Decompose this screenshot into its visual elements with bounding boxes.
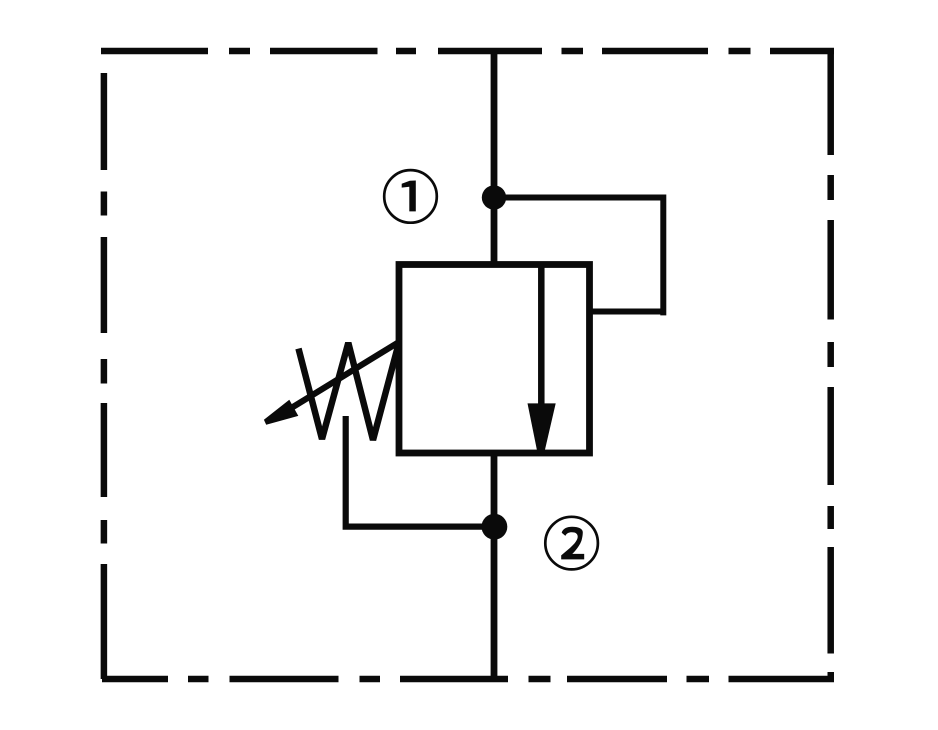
adjustment arrowhead	[264, 400, 298, 425]
node 2 junction dot	[482, 514, 508, 540]
spring (zigzag)	[299, 343, 398, 440]
port label circle 1	[384, 170, 437, 223]
wire: pilot line from node 1 to valve right side	[494, 195, 666, 316]
wire: main vertical line port 1 side (top border to valve body)	[491, 48, 498, 265]
enclosure dash-dot border left	[101, 73, 108, 679]
wire: spring drain line to node 2	[343, 416, 494, 527]
enclosure dash-dot border bottom	[102, 676, 834, 683]
port label digit 2	[561, 527, 584, 560]
adjustment arrow shaft	[288, 342, 399, 410]
enclosure dash-dot border right	[827, 48, 834, 654]
node 1 junction dot	[482, 185, 506, 209]
valve body envelope	[399, 265, 590, 454]
port label circle 2	[545, 517, 598, 570]
enclosure dash-dot border top	[101, 48, 834, 55]
port label digit 1	[402, 181, 416, 212]
border bottom-right corner stub	[828, 672, 835, 682]
valve internal flow arrowhead	[528, 403, 556, 451]
wire: main vertical line port 2 side (valve body to bottom border)	[491, 453, 498, 679]
valve internal flow line	[538, 265, 545, 411]
